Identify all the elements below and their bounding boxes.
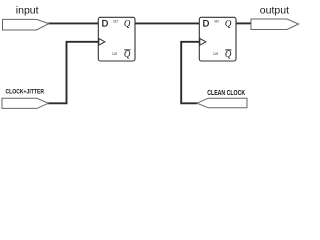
svg-text:D: D (102, 19, 109, 29)
wire Q2 to output (236, 22, 252, 24)
port tag CLOCK+JITTER (2, 98, 48, 108)
svg-text:CLR: CLR (213, 52, 218, 56)
svg-text:CLR: CLR (112, 52, 117, 56)
port tag input (3, 19, 49, 30)
U1 clock triangle (99, 39, 105, 46)
wire CLOCK+JITTER to clk1 (48, 42, 99, 104)
svg-text:CLOCK+JITTER: CLOCK+JITTER (6, 88, 45, 95)
svg-text:SET: SET (113, 20, 118, 24)
port tag CLEAN CLOCK (197, 98, 247, 108)
D flip-flop U1 (98, 17, 135, 61)
svg-text:Q: Q (225, 19, 232, 29)
svg-text:Q: Q (124, 49, 131, 59)
wire CLEAN CLOCK to clk2 (181, 42, 199, 104)
svg-text:input: input (16, 4, 39, 16)
svg-text:Q: Q (124, 19, 131, 29)
U1 pin label Qbar (124, 49, 131, 59)
port tag output (251, 19, 299, 30)
wire Q1 to D2 (135, 22, 199, 24)
D flip-flop U2 (199, 17, 236, 61)
svg-text:Q: Q (225, 49, 232, 59)
wire input to D1 (48, 22, 98, 24)
svg-text:CLEAN CLOCK: CLEAN CLOCK (207, 88, 245, 97)
svg-text:SET: SET (214, 20, 219, 24)
svg-text:output: output (260, 4, 289, 16)
svg-text:D: D (203, 19, 210, 29)
U2 pin label Qbar (225, 49, 232, 59)
U2 clock triangle (200, 39, 206, 46)
